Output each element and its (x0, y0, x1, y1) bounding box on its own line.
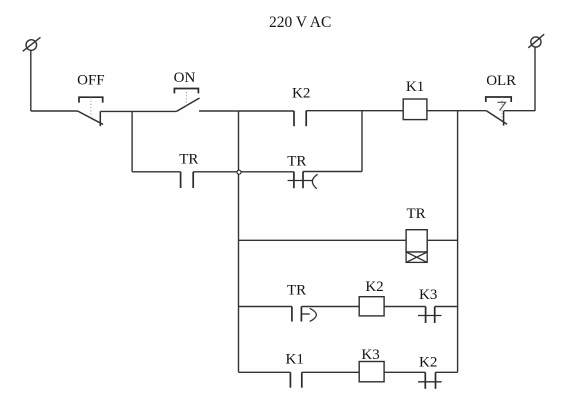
svg-text:K2: K2 (419, 355, 437, 371)
svg-text:TR: TR (287, 282, 306, 298)
svg-text:K1: K1 (406, 79, 424, 95)
svg-text:TR: TR (179, 152, 198, 168)
svg-text:K2: K2 (292, 85, 310, 101)
svg-text:K2: K2 (365, 279, 383, 295)
svg-text:ON: ON (174, 70, 196, 86)
svg-text:K3: K3 (419, 287, 437, 303)
svg-text:OFF: OFF (77, 73, 105, 89)
svg-text:K1: K1 (286, 352, 304, 368)
svg-text:K3: K3 (361, 347, 379, 363)
svg-text:TR: TR (287, 154, 306, 170)
svg-text:220 V AC: 220 V AC (269, 14, 331, 31)
svg-text:OLR: OLR (486, 73, 516, 89)
svg-text:TR: TR (407, 206, 426, 222)
